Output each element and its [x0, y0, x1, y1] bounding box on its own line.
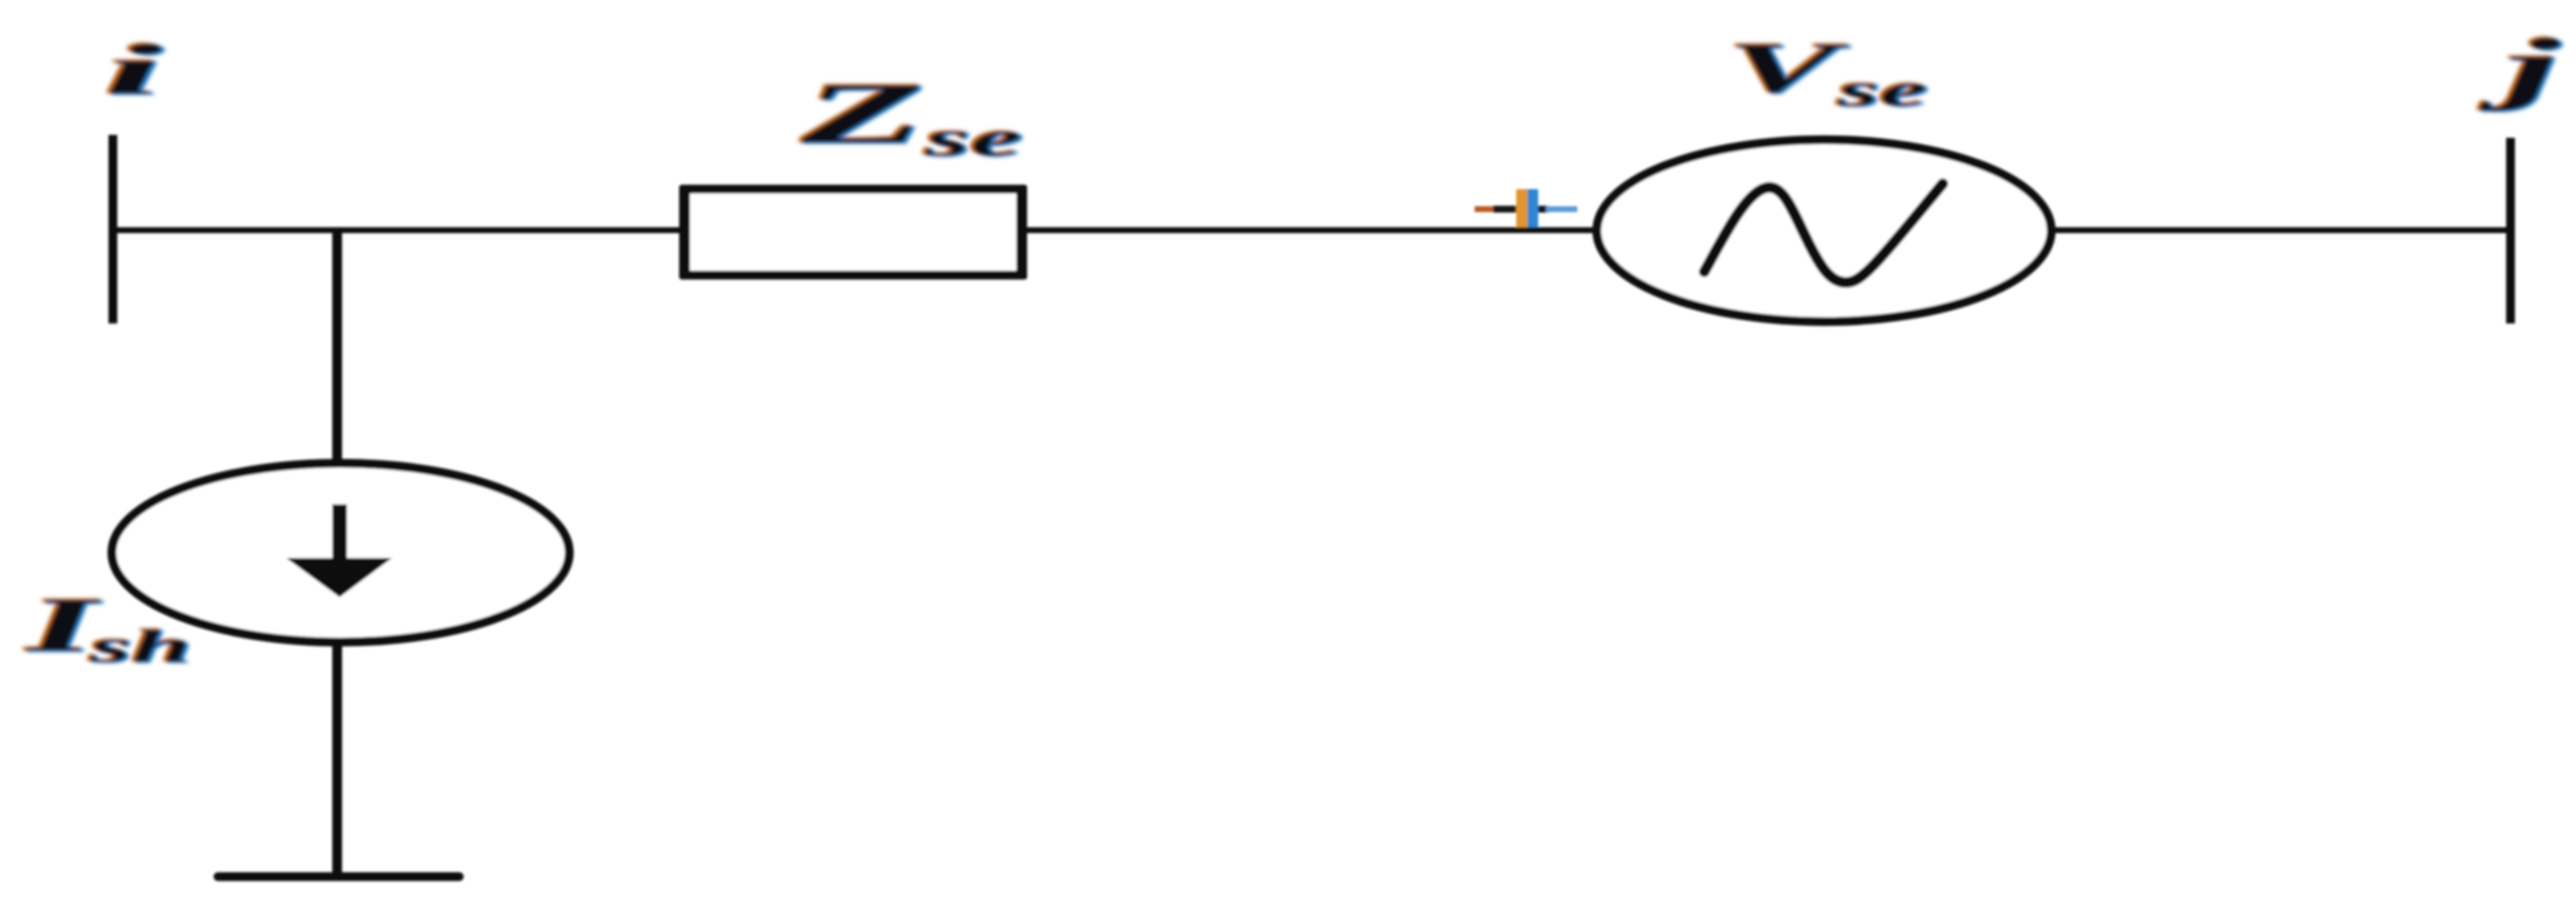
svg-text:i: i — [104, 30, 163, 110]
